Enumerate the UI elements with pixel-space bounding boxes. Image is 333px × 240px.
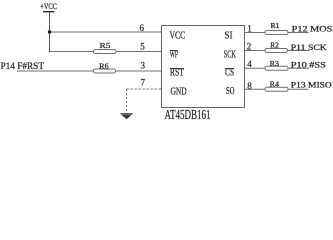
svg-text:6: 6 xyxy=(140,23,145,33)
svg-text:4: 4 xyxy=(247,59,252,69)
svg-text:R3: R3 xyxy=(270,59,280,68)
svg-text:WP: WP xyxy=(170,50,178,61)
svg-text:RST: RST xyxy=(170,68,185,79)
svg-text:CS: CS xyxy=(225,68,234,79)
svg-text:5: 5 xyxy=(140,42,145,52)
svg-text:GND: GND xyxy=(171,86,187,97)
svg-text:R1: R1 xyxy=(271,21,280,30)
svg-text:P13 MISO: P13 MISO xyxy=(291,81,332,90)
svg-text:8: 8 xyxy=(247,81,252,91)
svg-text:R6: R6 xyxy=(99,61,109,70)
svg-text:2: 2 xyxy=(247,41,252,51)
svg-text:P10 #SS: P10 #SS xyxy=(291,60,326,69)
svg-text:VCC: VCC xyxy=(170,31,186,42)
svg-text:SCK: SCK xyxy=(224,50,237,61)
svg-text:+VCC: +VCC xyxy=(40,2,57,11)
svg-text:7: 7 xyxy=(141,78,146,88)
svg-text:P14 F#RST: P14 F#RST xyxy=(1,62,45,72)
svg-text:1: 1 xyxy=(247,23,252,33)
svg-text:P11 SCK: P11 SCK xyxy=(291,43,327,52)
svg-text:AT45DB161: AT45DB161 xyxy=(165,108,211,120)
svg-text:SO: SO xyxy=(226,86,235,97)
svg-text:R4: R4 xyxy=(270,79,280,88)
svg-text:R2: R2 xyxy=(270,40,279,49)
svg-text:SI: SI xyxy=(225,31,234,42)
svg-text:R5: R5 xyxy=(100,41,111,50)
svg-text:3: 3 xyxy=(141,61,146,71)
svg-text:P12 MOSI: P12 MOSI xyxy=(292,25,333,34)
